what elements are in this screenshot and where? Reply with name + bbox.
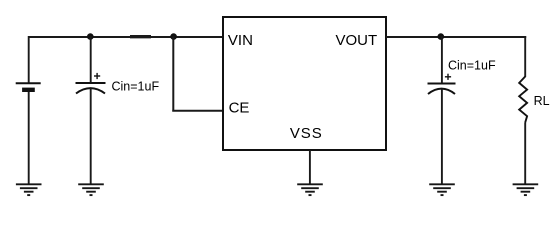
svg-text:Cin=1uF: Cin=1uF	[448, 59, 496, 73]
wire: RL top lead	[524, 36, 526, 77]
node: junction dot at C1 tap	[87, 33, 94, 40]
wire: C2 bottom lead	[441, 89, 443, 184]
node: junction dot at CE tap	[170, 33, 177, 40]
node: junction dot at C2 tap	[438, 33, 445, 40]
svg-text:Cin=1uF: Cin=1uF	[112, 79, 160, 93]
wire: battery positive lead	[28, 36, 30, 83]
svg-text:VOUT: VOUT	[336, 32, 378, 49]
polarity + (C2)	[445, 74, 451, 80]
wire: C1 top lead	[90, 37, 92, 83]
wire: C2 top lead	[441, 37, 443, 84]
op-amp / regulator U1 body	[223, 17, 386, 150]
wire: CE tap vertical drop	[172, 37, 174, 112]
wire: VSS lead to ground	[309, 150, 311, 184]
battery BT1	[16, 83, 41, 92]
ground (battery)	[16, 184, 42, 195]
svg-text:RL: RL	[534, 94, 550, 108]
wire: VOUT net from pin to load	[386, 36, 526, 38]
wire: CE horizontal into pin	[172, 110, 224, 112]
wire: RL bottom lead	[524, 123, 526, 185]
svg-text:CE: CE	[229, 99, 250, 116]
capacitor C1 (input cap, polarized)	[76, 83, 106, 94]
polarity + (C1)	[94, 73, 100, 79]
ground (C1)	[78, 184, 104, 195]
ground (RL)	[513, 184, 539, 195]
resistor RL (zigzag)	[519, 77, 527, 123]
wire: C1 bottom lead	[90, 89, 92, 185]
capacitor C2 (output cap, polarized)	[428, 84, 456, 95]
wire: thicker overlapped segment on top-left net	[130, 35, 151, 38]
wire: battery negative lead	[28, 92, 30, 184]
ground (C2)	[429, 184, 455, 195]
svg-text:VSS: VSS	[290, 125, 323, 142]
svg-text:VIN: VIN	[228, 32, 253, 49]
ground (VSS)	[297, 184, 323, 195]
wire: top-left horizontal net from battery to VIN pin	[28, 36, 224, 38]
